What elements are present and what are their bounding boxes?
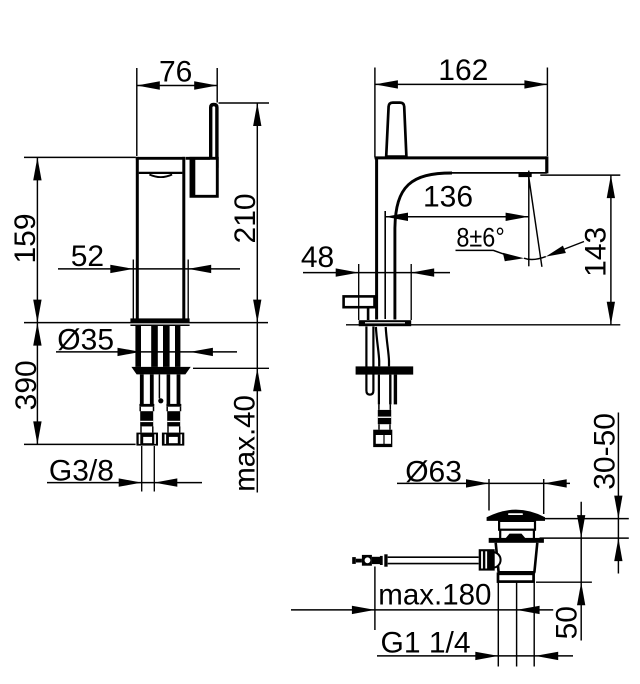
dimension max180 line <box>291 609 553 611</box>
cartridge block top edge <box>186 157 210 160</box>
dimension 52 extension line left <box>132 260 134 320</box>
water stream tilted line <box>529 176 542 267</box>
dimension max180 arrow left <box>352 606 375 614</box>
dimension 210 arrow bottom <box>253 300 261 323</box>
dimension G1 1/4 line <box>377 655 573 657</box>
svg-text:G1 1/4: G1 1/4 <box>381 627 471 660</box>
body top reference line <box>24 156 136 158</box>
hose below flange line a <box>378 375 380 405</box>
faucet body left edge <box>136 157 139 320</box>
dimension D63 extension line left <box>488 479 490 511</box>
svg-text:Ø35: Ø35 <box>57 323 114 356</box>
mounting flange <box>131 367 190 375</box>
svg-text:G3/8: G3/8 <box>49 454 114 487</box>
dimension 52 extension line right <box>187 260 189 320</box>
rod end nub <box>352 557 356 564</box>
dimension 76 arrow right <box>194 81 217 89</box>
angle label underline <box>456 250 505 254</box>
svg-text:76: 76 <box>159 55 192 88</box>
dimension 52 arrow left <box>110 265 133 273</box>
mounting stud <box>158 374 160 398</box>
dimension 52 line <box>58 268 240 270</box>
dimension 143 arrow bottom <box>607 302 615 325</box>
dimension 48 arrow right <box>411 268 434 276</box>
spout bottom edge <box>449 172 547 174</box>
hose end reference line <box>24 443 136 445</box>
faucet body top edge <box>136 157 186 160</box>
shank tube outer left <box>135 326 141 367</box>
dimension 136 arrow right <box>506 213 529 221</box>
angle arrow left <box>503 253 524 261</box>
dimension G1 1/4 arrow left <box>475 652 498 660</box>
hose S-curve left line <box>376 327 379 366</box>
mounting stud loop <box>366 327 373 395</box>
dimension D63 line <box>397 482 570 484</box>
hose left outline b <box>150 374 154 404</box>
drain shoulder sides <box>500 530 534 538</box>
drain cap dome <box>487 510 545 521</box>
drain neck <box>499 521 535 530</box>
dimension G3/8 arrow left <box>119 478 142 486</box>
dimension 76 extension line right <box>216 68 218 103</box>
dimension 210/max40 line <box>256 103 258 493</box>
svg-text:52: 52 <box>71 240 104 273</box>
dimension 162 arrow left <box>375 80 398 88</box>
water stream vertical line <box>528 171 530 267</box>
drain cap slit <box>508 513 523 515</box>
thread block slits <box>140 421 153 422</box>
rod end block hole <box>365 557 371 563</box>
rod thick segment <box>372 557 380 564</box>
dimension D63 arrow left <box>466 479 489 487</box>
deck base plate bottom line <box>130 324 189 326</box>
hose left end band <box>139 404 154 407</box>
hose left neck lines <box>140 407 153 412</box>
tailpipe left line <box>497 582 499 667</box>
dimension 390 arrow top <box>33 323 41 346</box>
aerator outlet block <box>519 174 532 178</box>
svg-text:159: 159 <box>9 213 42 263</box>
dimension 48 arrow left <box>336 268 359 276</box>
hose left thread block <box>140 411 153 426</box>
hose right outline b <box>177 374 181 404</box>
dimension 30-50 line <box>617 413 619 574</box>
tailpipe right line <box>533 582 535 667</box>
svg-text:50: 50 <box>550 606 583 639</box>
dimension 210 arrow top <box>253 103 261 126</box>
dimension G3/8 extension lines <box>142 446 155 492</box>
angle arc <box>524 257 546 260</box>
hose left collar lines <box>141 426 153 432</box>
hose right neck lines <box>167 407 180 412</box>
dimension G3/8 arrow right <box>154 478 177 486</box>
svg-text:48: 48 <box>301 241 334 274</box>
overflow port opening <box>485 552 501 568</box>
dimension G3/8 line <box>47 482 202 484</box>
shank pipe inner right <box>163 326 170 367</box>
hose left outline a <box>140 374 144 404</box>
dimension 48 extension line right <box>410 264 412 320</box>
rod end block <box>362 555 372 566</box>
overflow port block <box>479 549 495 570</box>
dimension 162 line <box>375 83 548 85</box>
dimension G1 1/4 arrow right <box>535 652 558 660</box>
hose right nut <box>162 433 184 446</box>
hose right outline a <box>167 374 171 404</box>
rod end shaft <box>356 559 362 563</box>
side tab support <box>367 307 370 320</box>
angle leader right <box>562 242 584 251</box>
hose S-curve right line <box>386 327 389 366</box>
dimension 159 arrow top <box>33 157 41 180</box>
dimension D35 arrow right <box>190 348 213 356</box>
spout right end edge <box>545 156 548 173</box>
svg-text:143: 143 <box>579 227 612 277</box>
dimension 162 arrow right <box>524 80 547 88</box>
lever bottom tip <box>209 161 214 167</box>
svg-text:136: 136 <box>423 180 473 213</box>
svg-text:210: 210 <box>229 193 262 243</box>
shank tube outer right <box>175 326 180 367</box>
drain flange <box>489 538 544 543</box>
svg-text:max.40: max.40 <box>229 395 262 492</box>
drain shoulder wedge <box>506 534 525 538</box>
hose right thread block <box>167 411 180 426</box>
dimension 162 extension line right <box>546 68 548 157</box>
dimension 30-50 arrow bottom <box>614 538 622 561</box>
hose right end band <box>166 404 181 407</box>
dimension 50 arrow top <box>577 515 585 538</box>
dimension 136 line <box>385 216 529 218</box>
angle arrow right <box>546 246 566 257</box>
dimension max40 arrow bottom <box>253 368 261 391</box>
hose collar lines (front) <box>379 424 390 430</box>
deck base plate <box>130 318 189 322</box>
body bottom reference line <box>536 581 592 583</box>
dimension 76 line <box>137 85 217 87</box>
dimension 48 line <box>303 272 450 274</box>
tailpipe centerline <box>516 582 518 667</box>
dimension 48 extension line left <box>358 264 360 320</box>
dimension 76 extension line left <box>136 68 138 156</box>
mounting stud ball end <box>158 398 163 403</box>
hose neck lines (front) <box>379 404 390 410</box>
hose nut windows (front) <box>376 435 384 444</box>
hose right collar lines <box>168 426 180 432</box>
dimension D63 arrow right <box>544 479 567 487</box>
body blade left edge <box>375 158 378 320</box>
dimension 76 arrow left <box>137 81 160 89</box>
svg-text:Ø63: Ø63 <box>405 455 462 488</box>
hose thread block (front) <box>378 410 391 424</box>
dimension 143 line <box>610 175 612 325</box>
faucet lever handle (side view) <box>211 105 217 167</box>
side tab <box>344 296 375 307</box>
spout top edge <box>375 156 548 159</box>
dimension D35 line <box>56 351 237 353</box>
cap bottom reference line <box>543 518 629 520</box>
hose left nut <box>136 433 158 446</box>
flange reference line <box>540 537 629 539</box>
second hose edge <box>394 375 397 405</box>
drain body bottom line <box>498 571 536 573</box>
body seam arc <box>149 175 172 178</box>
svg-text:8±6°: 8±6° <box>456 222 504 252</box>
dimension 143 arrow top <box>607 175 615 198</box>
shank pipe inner left <box>151 326 158 367</box>
dimension 159 arrow bottom <box>33 300 41 323</box>
dimension D63 extension line right <box>543 479 545 514</box>
body blade underside curve and right edge <box>395 173 452 320</box>
svg-text:max.180: max.180 <box>378 578 491 611</box>
dimension 390 arrow bottom <box>33 421 41 444</box>
svg-text:30-50: 30-50 <box>589 413 622 490</box>
nut windows <box>143 437 152 443</box>
svg-text:390: 390 <box>10 360 43 410</box>
rod pin <box>384 554 387 566</box>
drain bottom collar <box>498 574 534 582</box>
cartridge block thick left edge <box>190 158 195 196</box>
svg-text:162: 162 <box>438 54 488 87</box>
handle top reference line <box>219 102 270 104</box>
lever handle (front view) <box>386 103 406 157</box>
body seam line <box>139 172 183 174</box>
faucet body right edge <box>182 157 185 320</box>
deck reference line right view <box>346 324 620 326</box>
flange reference line <box>193 367 269 369</box>
port block slits <box>481 551 483 568</box>
pop-up rod lines <box>388 557 479 563</box>
hose nut (front) <box>373 430 392 447</box>
dimension max180 extension line <box>374 567 376 631</box>
dimension D35 arrow left <box>118 348 141 356</box>
dimension 50 line <box>580 502 582 641</box>
dimension 30-50 arrow top <box>614 496 622 519</box>
dimension 52 arrow right <box>188 265 211 273</box>
rod collar <box>380 556 383 565</box>
dimension 50 arrow bottom <box>577 582 585 605</box>
body centerline <box>384 211 386 319</box>
dimension 136 arrow left <box>385 213 408 221</box>
deck reference line <box>24 322 268 324</box>
dimension 162 extension line left <box>374 68 376 158</box>
hose below flange line b <box>389 375 391 405</box>
mounting flange nut (front view) <box>356 366 414 374</box>
spout tip reference line <box>540 174 620 176</box>
cartridge block <box>191 158 217 196</box>
base plate (front view) <box>359 320 412 326</box>
dimension max180 arrow right <box>517 606 540 614</box>
drain body sides <box>496 543 538 572</box>
dimension 159/390 line <box>36 157 38 444</box>
